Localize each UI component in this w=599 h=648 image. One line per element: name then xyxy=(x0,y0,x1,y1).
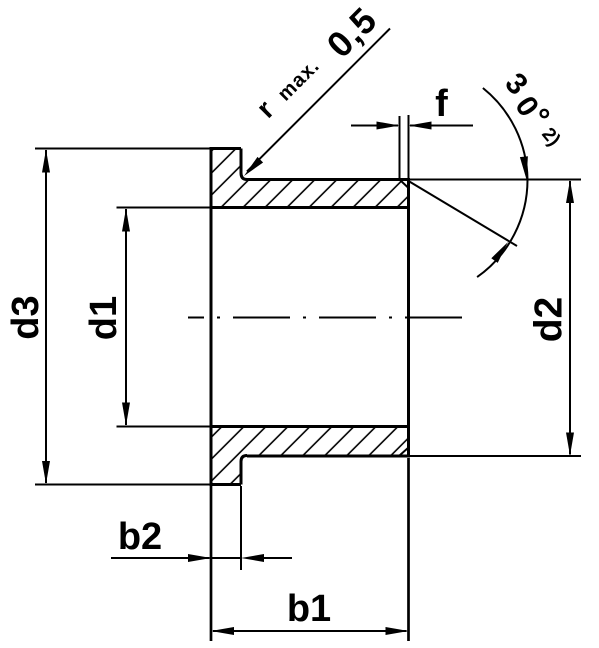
extension line f left xyxy=(399,116,401,180)
outline: flange left edge xyxy=(210,147,213,486)
outline: body bottom edge xyxy=(247,455,409,458)
extension line d3 bottom xyxy=(35,484,210,486)
extension line b1 right xyxy=(407,458,410,641)
dimension b1 xyxy=(213,630,407,632)
extension line f right (above body) xyxy=(408,115,410,179)
outline: flange right edge + notch radius (top) xyxy=(241,149,247,180)
extension line d2 top xyxy=(410,179,581,181)
outline: chamfer top-right xyxy=(400,180,409,189)
extension line d3 top xyxy=(35,148,210,150)
outline: bore top edge xyxy=(211,206,409,209)
hatched section: flange+body top wall xyxy=(211,149,409,208)
outline: bore bottom edge xyxy=(211,425,409,428)
arc arrow at horizontal line xyxy=(520,156,528,179)
extension line d2 bottom xyxy=(410,455,581,457)
extension line left (flange edge extended) xyxy=(210,486,213,641)
dimension line d3 xyxy=(45,150,47,483)
degree symbol xyxy=(541,110,548,117)
30deg dimension arc xyxy=(477,88,527,277)
extension line b2 right xyxy=(240,486,242,570)
svg-text:b2: b2 xyxy=(118,516,162,558)
outline: body right edge xyxy=(407,178,410,458)
extension line d1 bottom xyxy=(117,426,210,428)
dimension line d2 xyxy=(569,181,571,455)
dimension f arrows xyxy=(351,125,398,127)
svg-text:d1: d1 xyxy=(83,296,125,340)
svg-text:b1: b1 xyxy=(287,588,331,630)
arc arrow at 30deg line xyxy=(491,242,508,263)
outline: flange top edge xyxy=(210,147,242,150)
svg-text:f: f xyxy=(435,83,448,125)
dimension line d1 xyxy=(125,209,127,425)
centerline xyxy=(188,317,463,319)
outline: flange right edge + notch radius (bottom) xyxy=(241,456,247,485)
outline: chamfer bottom-right xyxy=(400,448,409,456)
outline: flange bottom edge xyxy=(210,483,242,486)
svg-text:d3: d3 xyxy=(5,295,47,339)
dimension b2 xyxy=(111,557,210,559)
extension line d1 top xyxy=(117,207,210,209)
hatched section: body bottom wall xyxy=(211,427,409,485)
30deg chamfer angle line xyxy=(409,181,518,246)
leader r max. 0,5 xyxy=(247,29,390,172)
svg-text:d2: d2 xyxy=(528,297,571,343)
outline: body top edge xyxy=(247,178,409,181)
